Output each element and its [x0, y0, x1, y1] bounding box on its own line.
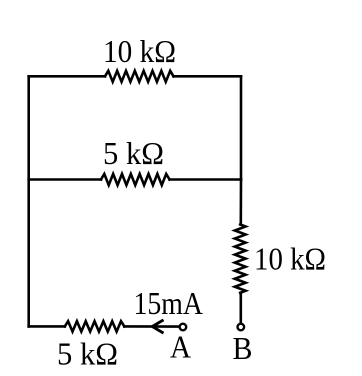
wire: resistor to terminal B — [240, 293, 243, 323]
wire: right vertical upper — [240, 76, 243, 179]
resistor R1 10 kOhm (top branch) — [105, 71, 174, 82]
resistor R4 5 kOhm (bottom branch) — [65, 321, 125, 331]
wire: middle right segment — [170, 178, 242, 181]
resistor R2 5 kOhm (middle branch) — [101, 174, 170, 185]
wire: middle left segment — [29, 178, 101, 181]
svg-text:10 kΩ: 10 kΩ — [103, 33, 176, 69]
svg-text:B: B — [233, 330, 253, 366]
current arrow 15mA pointing left — [152, 320, 163, 333]
wire: bottom to terminal A — [124, 325, 178, 328]
wire: top right segment — [174, 75, 242, 78]
terminal B open circle — [238, 324, 245, 331]
wire: left vertical branch — [27, 76, 30, 326]
svg-text:A: A — [170, 328, 191, 364]
wire: right vertical to resistor — [240, 180, 243, 225]
svg-text:5 kΩ: 5 kΩ — [57, 335, 118, 371]
svg-text:5 kΩ: 5 kΩ — [103, 135, 164, 171]
svg-text:15mA: 15mA — [134, 285, 204, 321]
wire: bottom left segment — [29, 325, 65, 328]
terminal A open circle — [180, 324, 187, 331]
svg-text:10 kΩ: 10 kΩ — [254, 240, 326, 276]
wire: top left segment — [29, 75, 105, 78]
resistor R3 10 kOhm (right vertical) — [235, 225, 246, 293]
